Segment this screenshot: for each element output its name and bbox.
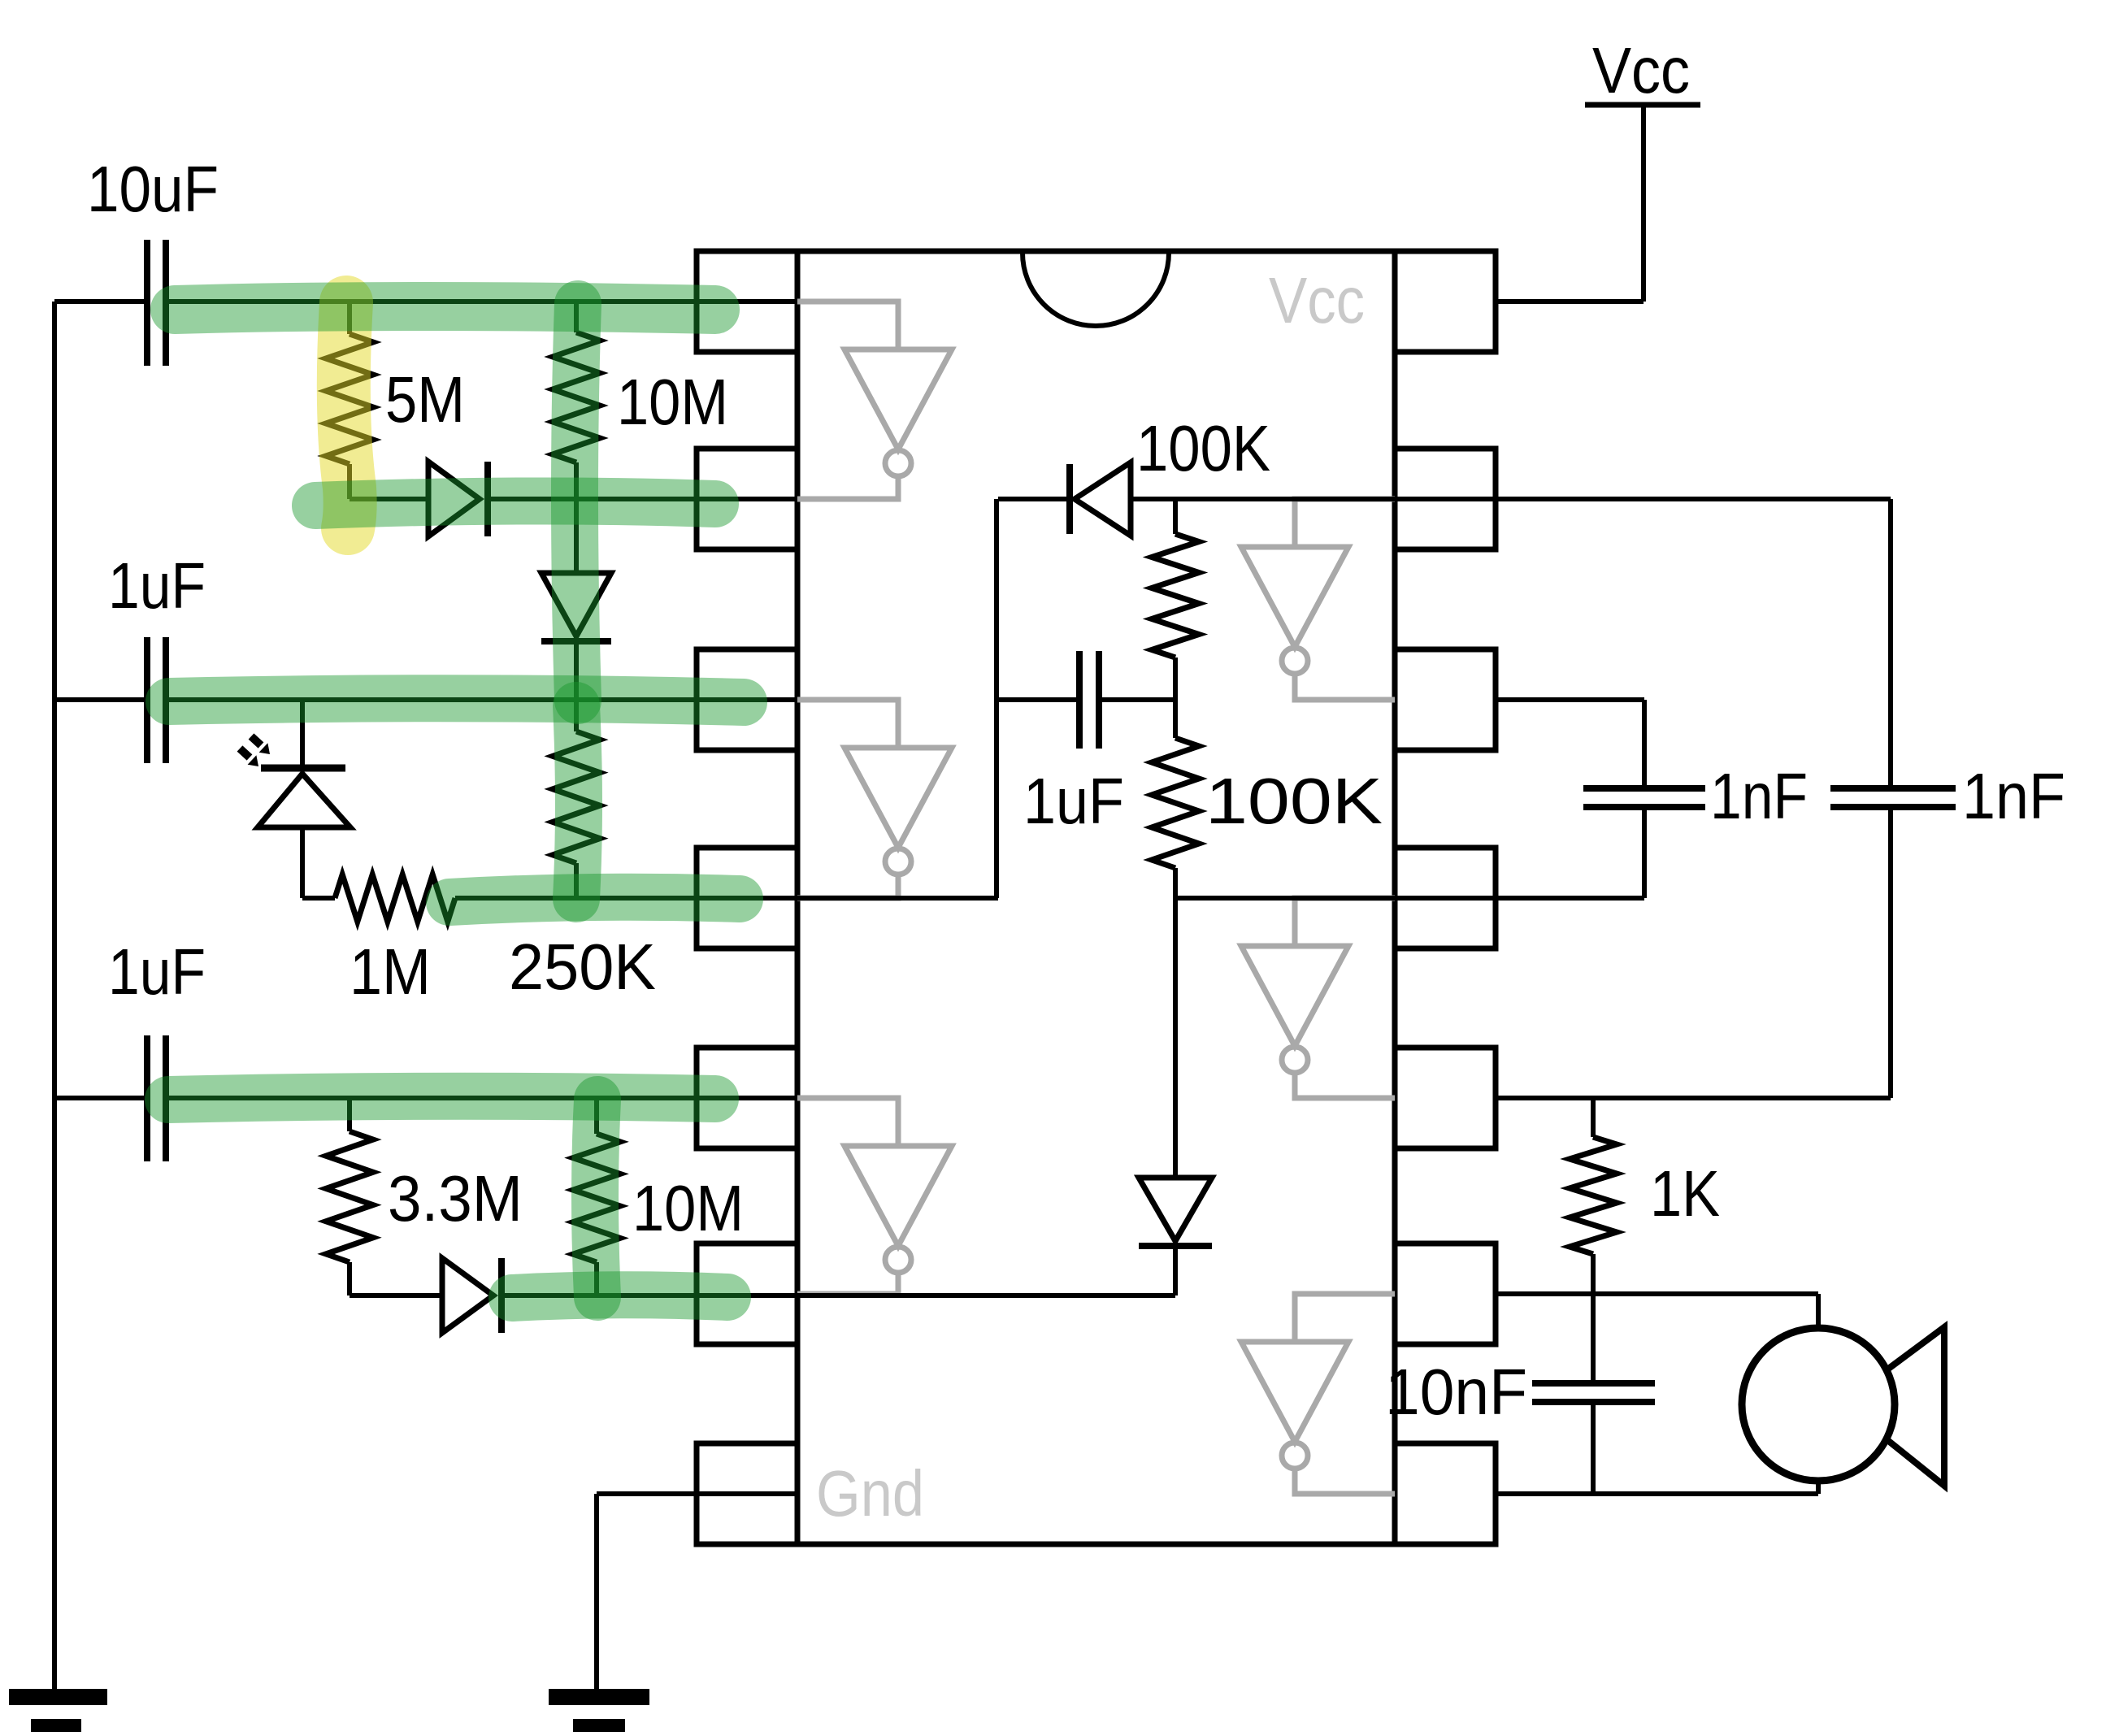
- svg-text:10uF: 10uF: [87, 153, 219, 225]
- wire C5 bottom lead: [1642, 810, 1647, 898]
- svg-text:250K: 250K: [509, 931, 656, 1003]
- IC pin box left 7: [697, 1443, 797, 1544]
- wire 10M2 top lead: [594, 1098, 599, 1134]
- svg-text:100K: 100K: [1136, 412, 1270, 484]
- capacitor C7 10nF: [1532, 1380, 1655, 1387]
- resistor 3.3M: [326, 1131, 373, 1262]
- wire 100K upper top lead: [1173, 499, 1178, 534]
- highlight green 250K vertical: [576, 705, 579, 899]
- photodiode D3: [261, 765, 345, 772]
- IC pin box left 5: [697, 1048, 797, 1148]
- diode D6 down: [1139, 1178, 1212, 1241]
- capacitor C1 10uF: [144, 240, 150, 366]
- IC pin box right 12: [1395, 649, 1496, 750]
- wire 10nF bottom lead: [1591, 1402, 1596, 1494]
- svg-text:10M: 10M: [632, 1172, 744, 1244]
- wire row6 3.3M corner to diode D4: [350, 1293, 442, 1298]
- speaker: [1742, 1328, 1895, 1481]
- IC pin box right 13: [1395, 449, 1496, 549]
- wire 100K lower top lead: [1173, 700, 1178, 738]
- wire pin8 row to speaker: [1496, 1491, 1818, 1496]
- svg-text:Vcc: Vcc: [1269, 264, 1365, 336]
- wire row2 5M corner to diode D1: [350, 497, 428, 501]
- wire row5 C3 to pin5: [168, 1096, 797, 1100]
- IC pin box right 10: [1395, 1048, 1496, 1148]
- wire 10M top lead: [574, 302, 579, 332]
- highlight green row6: [512, 1295, 727, 1298]
- wire row2 right vertical to C6: [1888, 499, 1893, 785]
- wire pin9 row to speaker: [1496, 1291, 1818, 1296]
- highlight green 10M vertical: [575, 304, 578, 701]
- wire internal row4 to pin11 and 1nF: [1173, 896, 1644, 901]
- IC pin box left 2: [697, 449, 797, 549]
- inverter U1a: [797, 302, 898, 349]
- IC pin box left 3: [697, 649, 797, 750]
- wire LED bottom lead: [300, 827, 305, 898]
- wire pin10 row: [1496, 1096, 1891, 1100]
- wire 3.3M bottom lead: [347, 1262, 352, 1295]
- wire row4 1M to pin4 and inside: [455, 896, 998, 901]
- wire LED top lead: [300, 700, 305, 765]
- resistor 5M: [326, 334, 373, 464]
- highlight yellow 5M: [344, 302, 350, 528]
- svg-text:Gnd: Gnd: [816, 1457, 924, 1530]
- capacitor C6 1nF: [1830, 785, 1956, 792]
- IC pin box left 1: [697, 251, 797, 352]
- resistor 1K: [1570, 1137, 1617, 1254]
- wire rail left vertical: [52, 302, 57, 1690]
- wire 10M to diode D2: [574, 462, 579, 573]
- IC notch: [1023, 253, 1169, 326]
- wire row6 D4 to pin6 and internal diode D6: [502, 1293, 1175, 1298]
- wire 100K lower bottom lead: [1173, 868, 1178, 898]
- inverter U1d: [1295, 499, 1395, 547]
- wire row3 C2 to pin3: [168, 697, 797, 702]
- capacitor C5 1nF: [1583, 785, 1705, 792]
- wire internal C4 row left: [997, 697, 1079, 702]
- svg-text:5M: 5M: [385, 363, 465, 436]
- diode D2 down: [541, 573, 611, 636]
- wire row2 long right: [1131, 497, 1891, 501]
- diode D5 left: [1075, 462, 1131, 536]
- inverter U1b: [797, 700, 898, 748]
- highlight green 10M2 vertical: [595, 1100, 597, 1297]
- wire row1 C1 to pin1: [168, 299, 797, 304]
- wire internal C4 row right: [1099, 697, 1175, 702]
- wire D2 to row3: [574, 644, 579, 700]
- svg-text:1K: 1K: [1650, 1157, 1720, 1230]
- diode D4: [442, 1258, 493, 1333]
- svg-text:1uF: 1uF: [108, 549, 206, 622]
- wire 1K bottom lead: [1591, 1254, 1596, 1294]
- IC pin box right 14: [1395, 251, 1496, 352]
- photodiode light arrows: [251, 736, 261, 745]
- wire 10nF top lead: [1591, 1294, 1596, 1383]
- wire 250K top lead: [574, 700, 579, 731]
- wire 10M2 bottom lead: [594, 1262, 599, 1295]
- wire speaker bottom stub: [1816, 1479, 1821, 1494]
- ground left: [9, 1689, 107, 1705]
- resistor 100K upper: [1152, 534, 1199, 658]
- IC pin box left 4: [697, 848, 797, 948]
- svg-text:1nF: 1nF: [1710, 760, 1808, 832]
- highlight green row5: [168, 1096, 715, 1100]
- svg-text:10nF: 10nF: [1385, 1356, 1527, 1428]
- wire internal row2 corner to D5: [998, 497, 1070, 501]
- highlight green row2: [315, 501, 715, 506]
- IC U1 body: [797, 251, 1395, 1544]
- ground right: [549, 1689, 649, 1705]
- highlight green row3: [169, 698, 744, 702]
- svg-text:3.3M: 3.3M: [388, 1162, 523, 1235]
- svg-text:100K: 100K: [1205, 765, 1383, 837]
- wire 100K upper bottom lead: [1173, 658, 1178, 700]
- wire 250K bottom lead: [574, 863, 579, 898]
- wire C1 left stub: [54, 299, 147, 304]
- resistor 10M bottom: [573, 1134, 620, 1262]
- wire pin12 to C5: [1496, 697, 1644, 702]
- IC pin box right 9: [1395, 1243, 1496, 1344]
- IC pin box left 6: [697, 1243, 797, 1344]
- wire speaker top stub: [1816, 1294, 1821, 1330]
- wire 3.3M top lead: [347, 1098, 352, 1131]
- wire LED to 1M lead: [302, 896, 335, 901]
- wire D6 top lead: [1173, 898, 1178, 1178]
- resistor 100K lower: [1152, 738, 1199, 868]
- svg-text:1uF: 1uF: [108, 935, 206, 1008]
- capacitor C3 1uF: [144, 1035, 150, 1161]
- svg-text:1M: 1M: [350, 935, 431, 1008]
- wire row2 D1 to pin2: [488, 497, 797, 501]
- IC pin box right 8: [1395, 1443, 1496, 1544]
- wire row7 Gnd pin: [597, 1491, 797, 1496]
- wire Gnd drop: [594, 1494, 599, 1690]
- wire C2 left stub: [54, 697, 147, 702]
- wire 5M top lead: [347, 302, 352, 334]
- wire 1K top lead: [1591, 1098, 1596, 1137]
- wire internal vertical node: [994, 499, 999, 898]
- resistor 1M: [335, 875, 455, 922]
- inverter U1e: [1295, 898, 1395, 946]
- highlight green row4: [449, 897, 740, 902]
- resistor 250K: [553, 731, 600, 863]
- svg-text:10M: 10M: [617, 366, 728, 438]
- wire C5 top lead: [1642, 700, 1647, 785]
- wire Vcc vertical: [1641, 106, 1646, 302]
- svg-text:1nF: 1nF: [1962, 760, 2065, 832]
- wire C6 bottom lead: [1888, 810, 1893, 1098]
- svg-text:Vcc: Vcc: [1592, 34, 1690, 106]
- resistor 10M top: [553, 332, 600, 462]
- inverter U1f: [1295, 1294, 1395, 1342]
- capacitor C4 1uF internal: [1076, 651, 1083, 749]
- capacitor C2 1uF: [144, 637, 150, 763]
- IC pin box right 11: [1395, 848, 1496, 948]
- wire C3 left stub: [54, 1096, 147, 1100]
- wire 5M bottom lead: [347, 464, 352, 499]
- inverter U1c: [797, 1098, 898, 1146]
- highlight green row1: [175, 306, 715, 310]
- wire D6 bottom lead: [1173, 1246, 1178, 1295]
- svg-text:1uF: 1uF: [1023, 765, 1124, 837]
- diode D1: [428, 462, 480, 536]
- wire Vcc pin14: [1496, 299, 1644, 304]
